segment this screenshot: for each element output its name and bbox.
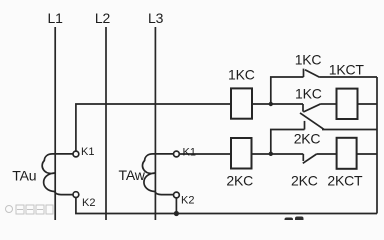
- wire row1 to right bus: [320, 76, 377, 78]
- svg-text:L2: L2: [95, 10, 111, 26]
- contact 2KC upper: tick: [304, 121, 306, 130]
- wire right bus vertical: [376, 77, 378, 214]
- relay coil 2KC: [231, 138, 252, 169]
- junction dot row2/branch: [269, 102, 273, 106]
- svg-text:1KC: 1KC: [295, 52, 322, 68]
- relay coil 1KCT: [337, 89, 358, 119]
- svg-text:2KCT: 2KCT: [327, 173, 363, 189]
- wire from TAw K2 down to bottom bus: [175, 198, 177, 213]
- svg-text:1KC: 1KC: [295, 86, 322, 102]
- wire row3 to right bus: [322, 129, 377, 131]
- wire contact to coil 1KCT: [321, 103, 337, 105]
- bottom cropped artifact: [285, 218, 294, 222]
- wire L2 phase line: [105, 27, 107, 220]
- watermark: [6, 205, 54, 214]
- contact 2KC upper: blade: [300, 113, 324, 129]
- contact 2KC lower: tick: [302, 154, 304, 161]
- terminal K1 of TAw: [174, 151, 180, 157]
- relay coil 1KC: [231, 88, 252, 118]
- svg-text:K1: K1: [81, 146, 94, 158]
- svg-text:K1: K1: [183, 147, 196, 159]
- wire L3 phase line: [154, 27, 156, 220]
- contact 1KC upper: tick: [303, 69, 305, 77]
- relay coil 2KCT: [337, 138, 357, 169]
- contact 2KC lower: blade: [303, 154, 317, 163]
- contact 1KC upper: blade: [305, 70, 320, 78]
- svg-text:K2: K2: [181, 195, 194, 207]
- current transformer TAw secondary winding: [142, 154, 173, 195]
- contact 1KC lower: blade: [303, 104, 321, 112]
- wire contact to coil 2KCT: [317, 153, 337, 155]
- wire L1 phase line: [54, 27, 56, 220]
- svg-text:TAu: TAu: [12, 167, 36, 183]
- wire from TAw K1 right to relay coil 2KC: [180, 153, 231, 155]
- wire row2 coil 1KC output to contact: [252, 103, 303, 105]
- svg-text:L1: L1: [48, 10, 64, 26]
- terminal K1 of TAu: [73, 151, 79, 157]
- svg-text:2KC: 2KC: [291, 173, 318, 189]
- svg-text:2KC: 2KC: [226, 173, 253, 189]
- contact 1KC lower: tick: [302, 104, 304, 112]
- svg-text:TAw: TAw: [119, 167, 146, 183]
- svg-text:1KCT: 1KCT: [329, 62, 365, 78]
- terminal K2 of TAw: [174, 192, 180, 198]
- junction dot TAw K2 on bus: [174, 211, 179, 216]
- wire branch vertical group1: [271, 77, 304, 104]
- svg-text:2KC: 2KC: [294, 131, 321, 147]
- current transformer TAu secondary winding: [42, 154, 73, 195]
- wire coil 1KCT output to right bus: [358, 103, 378, 105]
- svg-text:L3: L3: [148, 10, 164, 26]
- wire from TAu K2 down to bottom bus: [76, 198, 377, 214]
- wire coil 2KCT output to right bus: [357, 153, 377, 155]
- wire from TAu K1 up and right to relay coil 1KC: [76, 104, 231, 151]
- wire branch vertical group2: [271, 130, 305, 154]
- svg-text:1KC: 1KC: [228, 67, 255, 83]
- wire row4 coil 2KC output to contact: [252, 153, 304, 155]
- terminal K2 of TAu: [73, 192, 79, 198]
- svg-text:K2: K2: [82, 197, 95, 209]
- junction dot row4/branch: [269, 152, 273, 156]
